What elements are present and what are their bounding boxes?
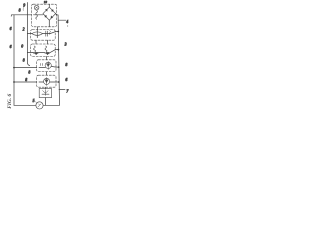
wire stub L1 to box E [14,81,37,83]
svg-text:10: 10 [44,0,48,4]
svg-text:0: 0 [21,45,23,49]
svg-text:5: 5 [33,99,35,103]
svg-text:6: 6 [65,78,67,82]
node dot right bus E junction [58,81,60,83]
wire AC terminal lead top-left [11,15,14,16]
svg-text:8: 8 [19,9,21,13]
thyristor Q2 circle [45,62,51,68]
node dot right bus D junction [58,66,60,68]
leader numeral 5 to motor [35,102,37,104]
transformer T1 winding [36,10,38,19]
leader for numeral 9 [22,7,25,10]
wire stub B-C left [35,40,37,44]
svg-text:3: 3 [65,43,67,47]
wire bus L1 left vertical [13,15,15,106]
wire stub box E to right bus [56,81,59,83]
svg-text:6: 6 [10,27,12,31]
resistor R1 squiggle [49,31,50,35]
block B dashed enclosure (switch circuit) [31,30,56,41]
diode D5 [33,52,38,54]
rheostat VR1 bar [42,93,49,95]
svg-text:8: 8 [28,70,30,74]
svg-text:6: 6 [10,45,12,49]
svg-text:FIG. 6: FIG. 6 [7,94,13,109]
thyristor Q3 circle [44,78,50,84]
diode D2 mark [51,9,53,11]
resistor R3 [45,46,47,52]
wire stub box C to right bus [55,49,58,51]
wire through box B [43,33,50,35]
wire bridge output to bus corner [55,14,58,15]
wire box B out [50,32,55,34]
wire AC line 1 horizontal to block A [14,14,32,16]
block F speed controller box [39,89,51,98]
svg-text:9: 9 [23,4,25,8]
wire box D leads [39,66,56,67]
svg-text:7: 7 [66,90,69,94]
wire stub C to D [46,57,48,60]
wire box E leads [39,81,56,83]
wire right bus from bridge output [57,15,60,106]
wire stub F to bottom line [45,98,47,106]
wire through box C [32,50,55,53]
node dot L1-E junction [13,81,15,83]
wire bridge bottom stub [48,20,50,26]
transformer T1 primary coil [34,5,39,10]
diode D4 mark [51,16,53,18]
rheostat VR1 wiper arrow [43,90,49,96]
block E dashed enclosure (thyristor unit 2) [37,75,56,87]
wire leader to numeral 7 [59,89,65,91]
thyristor Q2 element [47,61,50,69]
wire stub D to E [46,72,48,75]
node dot right bus B junction [57,31,59,33]
wire stub box B to right bus [55,31,58,33]
thyristor Q3 element [45,77,48,85]
wire stub L1 to box D [14,67,37,69]
capacitor C1 plates [46,31,48,36]
tick marks in box D [41,63,43,65]
wire bridge top stub [48,4,50,7]
motor M internal mark [38,104,41,107]
diode D3 mark [45,15,47,17]
svg-text:4: 4 [66,20,68,24]
node dot right bus C junction [58,49,60,51]
svg-text:8: 8 [25,78,27,82]
wire bottom return line [14,104,60,106]
node dot L1-D junction [13,67,15,69]
diode D1 mark [45,9,47,11]
triac Q1 lens symbol [32,32,43,36]
svg-text:8: 8 [65,63,67,67]
wire bus L2 vertical [27,3,29,66]
motor M circle [36,102,43,109]
bridge rectifier D1-D4 diamond [43,7,56,20]
block D dashed enclosure (thyristor unit) [37,60,56,72]
wire leader to numeral 4 [58,19,66,21]
block A dashed enclosure (power input / rectifier unit) [32,4,57,27]
wire stub L2 to box C [27,51,32,53]
diode D6 [45,52,50,54]
wire stub E to F [45,87,47,88]
wire stub L2 to box B [27,32,31,34]
wire stub block A to block B [37,27,39,30]
triac Q1 gate bar [36,30,38,38]
wire stub box D to right bus [56,66,59,68]
wire winding to bridge [34,14,44,16]
resistor R2 [34,46,36,52]
block C dashed enclosure (control circuit) [31,44,56,56]
svg-text:8: 8 [23,58,25,62]
speck below numeral 4 [67,25,68,26]
wire stub B-C right [47,40,49,44]
svg-text:2: 2 [23,28,25,32]
